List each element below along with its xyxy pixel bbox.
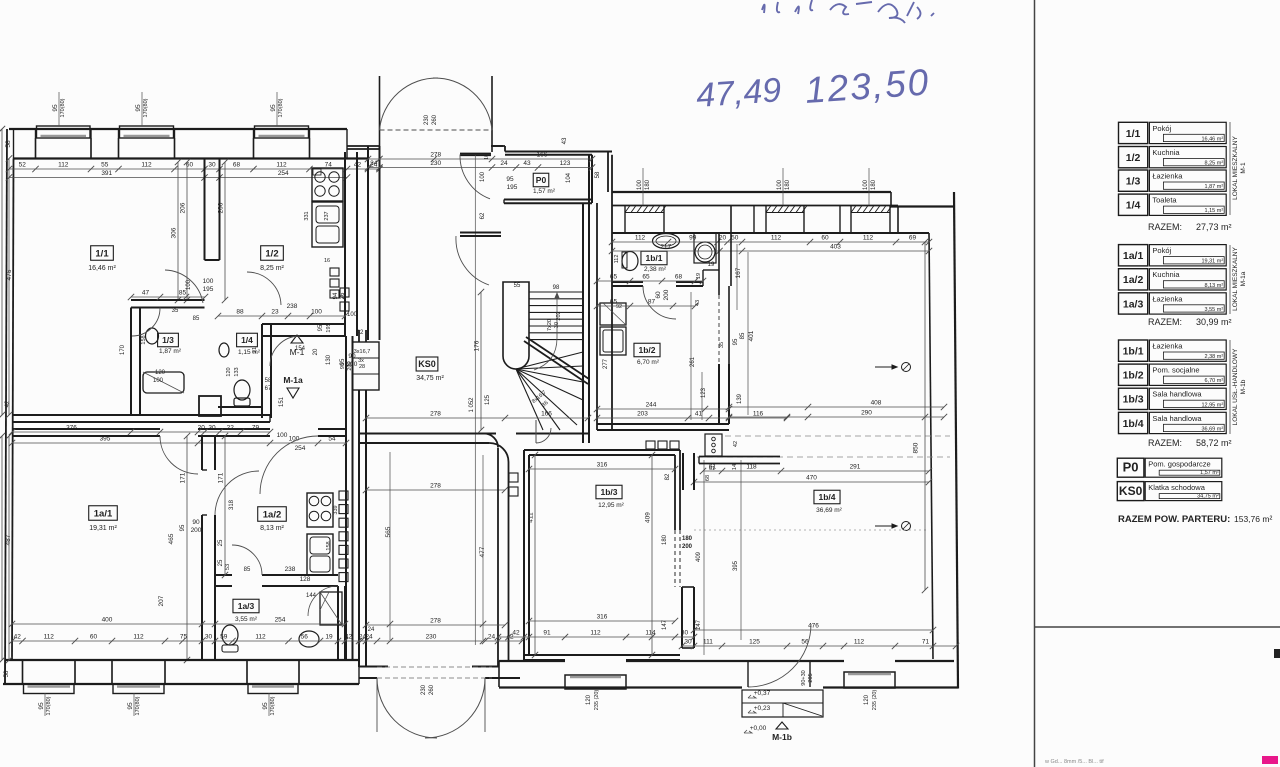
washbasin 1/3 (146, 328, 159, 344)
stairwell right wall (582, 203, 584, 443)
svg-text:195: 195 (203, 286, 214, 293)
pillar below opening 1b/3 (681, 587, 683, 648)
svg-text:43: 43 (562, 137, 568, 144)
svg-text:42: 42 (357, 330, 364, 336)
svg-text:395: 395 (733, 560, 739, 571)
svg-text:34,75 m²: 34,75 m² (1197, 493, 1219, 499)
stair flight boundary (582, 292, 584, 430)
svg-text:Kuchnia: Kuchnia (1152, 148, 1180, 157)
kitchen sink 1/2 (312, 202, 343, 247)
svg-text:25: 25 (218, 539, 224, 546)
svg-text:Pokój: Pokój (1152, 124, 1171, 133)
svg-text:401: 401 (748, 330, 755, 341)
svg-text:90: 90 (340, 363, 346, 369)
svg-text:170(80): 170(80) (278, 98, 284, 117)
svg-text:65: 65 (610, 274, 618, 281)
svg-text:30: 30 (684, 639, 692, 646)
svg-text:95: 95 (270, 104, 277, 112)
corridor lower door arc (456, 236, 489, 285)
door arc 1/3 (132, 308, 160, 337)
svg-text:6,70 m²: 6,70 m² (637, 359, 660, 366)
svg-text:206: 206 (180, 202, 187, 213)
svg-text:230: 230 (430, 160, 441, 167)
P0 dim chain (368, 158, 592, 160)
svg-text:24: 24 (359, 634, 367, 641)
top right corner step (890, 192, 892, 207)
svg-text:465: 465 (168, 533, 175, 544)
hall dim line 477 (482, 455, 484, 640)
svg-text:P0: P0 (1123, 460, 1139, 475)
svg-text:1b/2: 1b/2 (638, 345, 655, 355)
corridor door dim line (474, 155, 476, 645)
svg-text:24: 24 (368, 627, 375, 633)
svg-text:180: 180 (682, 536, 693, 542)
svg-text:278: 278 (430, 483, 441, 490)
door arc M-1b entrance (748, 624, 811, 687)
wall segment right of meter box (699, 456, 780, 458)
gas meter box below 1b/2 (705, 434, 722, 456)
window O3 top-left (255, 126, 309, 138)
dim chains 1b/3 (529, 468, 675, 470)
black mark right edge (1274, 649, 1280, 658)
svg-text:M-1b: M-1b (1240, 379, 1247, 394)
svg-text:23: 23 (271, 309, 279, 316)
svg-text:1b/4: 1b/4 (818, 492, 835, 502)
svg-text:144: 144 (306, 593, 317, 599)
svg-text:60: 60 (90, 634, 98, 641)
svg-text:170: 170 (120, 344, 126, 355)
three small squares below 1b/2 (646, 441, 655, 449)
svg-text:1/2: 1/2 (265, 248, 278, 259)
svg-text:254: 254 (295, 445, 306, 452)
svg-text:200: 200 (663, 289, 670, 300)
svg-text:30: 30 (205, 634, 213, 641)
svg-text:LOKAL MIESZKALNY: LOKAL MIESZKALNY (1232, 135, 1239, 199)
svg-text:290: 290 (861, 410, 872, 417)
radiator squares right wall 1/2 (330, 268, 339, 276)
svg-text:291: 291 (850, 464, 861, 471)
svg-text:331: 331 (304, 211, 310, 220)
washbasin oval 1b/1 (653, 234, 680, 249)
svg-text:68: 68 (705, 475, 711, 481)
dim chain 1b/2 bottom (597, 408, 729, 410)
svg-text:20: 20 (198, 425, 206, 432)
svg-text:112: 112 (614, 255, 620, 264)
svg-text:65: 65 (610, 299, 618, 306)
svg-text:230: 230 (424, 114, 430, 125)
svg-text:111: 111 (703, 639, 713, 646)
svg-text:Toaleta: Toaleta (1152, 196, 1177, 205)
room 1/1 label (91, 246, 114, 261)
page horizontal rule right (1035, 626, 1280, 628)
svg-text:RAZEM:: RAZEM: (1148, 222, 1182, 232)
svg-text:100: 100 (637, 179, 643, 190)
stairwell bottom wall (359, 433, 496, 435)
svg-text:158: 158 (141, 335, 147, 344)
bathroom 1/3 left wall (130, 308, 132, 416)
svg-text:8,13 m²: 8,13 m² (260, 525, 284, 532)
svg-text:170(80): 170(80) (270, 696, 276, 715)
svg-text:KS0: KS0 (1119, 484, 1143, 498)
svg-text:395: 395 (100, 436, 111, 443)
svg-text:100: 100 (347, 312, 358, 318)
svg-text:1b/4: 1b/4 (1123, 418, 1144, 430)
svg-text:19,31 m²: 19,31 m² (89, 525, 117, 532)
svg-text:114: 114 (645, 630, 656, 637)
dim chain bathroom zone (131, 296, 205, 298)
svg-text:112: 112 (255, 634, 266, 641)
svg-text:36,69 m²: 36,69 m² (816, 507, 842, 514)
svg-text:167: 167 (735, 267, 742, 278)
hatched window W2 right block (766, 206, 807, 213)
legend row 1b/3 (1119, 388, 1148, 409)
svg-text:100: 100 (277, 432, 288, 439)
svg-text:+0,23: +0,23 (754, 705, 771, 712)
nook wall 1b/1 right (718, 233, 720, 286)
entrance M-1b steps (742, 690, 823, 717)
svg-text:59: 59 (220, 634, 228, 641)
svg-text:112: 112 (141, 162, 152, 169)
svg-text:1 052: 1 052 (469, 397, 475, 413)
room 1b/4 label (814, 490, 840, 504)
svg-text:1/1: 1/1 (1126, 128, 1141, 140)
svg-text:36,69 m²: 36,69 m² (1201, 426, 1223, 432)
svg-text:200: 200 (682, 544, 693, 550)
svg-text:153,76 m²: 153,76 m² (1234, 514, 1272, 524)
svg-text:235 (20): 235 (20) (872, 690, 878, 711)
top facade dimension chain row1 (9, 168, 380, 170)
svg-text:42: 42 (5, 400, 11, 407)
legend row 1b/4 (1119, 412, 1148, 433)
svg-text:254: 254 (275, 617, 286, 624)
room 1b/1 label (641, 251, 667, 265)
magenta stamp (1262, 756, 1278, 764)
svg-text:125: 125 (749, 639, 760, 646)
wall right of 1a/3 (337, 586, 339, 660)
washer circle 1b/1 (695, 242, 715, 262)
door bay 1b/4 bottom (844, 672, 895, 688)
outer top wall of block M-1 (9, 128, 347, 130)
svg-text:M-1b: M-1b (772, 732, 792, 742)
svg-text:120: 120 (586, 694, 592, 705)
svg-text:400: 400 (102, 617, 113, 624)
svg-text:1b/3: 1b/3 (1123, 394, 1144, 406)
svg-text:1,15 m²: 1,15 m² (1205, 208, 1224, 214)
dashed opening right wall 1b/3 180/200 (674, 530, 676, 587)
svg-text:195: 195 (507, 184, 518, 191)
svg-text:20: 20 (313, 348, 319, 355)
bottom window labels (44, 693, 46, 716)
svg-text:79: 79 (252, 425, 260, 432)
svg-text:116: 116 (753, 411, 764, 418)
svg-text:90: 90 (192, 519, 200, 526)
svg-text:202: 202 (556, 311, 562, 320)
svg-text:195: 195 (326, 323, 332, 332)
room 1/4 label (237, 333, 258, 347)
svg-text:30: 30 (681, 630, 689, 637)
legend row 1b/2 (1119, 364, 1148, 385)
door arc 1a/3 shower zone (308, 586, 338, 616)
wall right of 1b/2 lower pillar (718, 364, 720, 424)
svg-text:128: 128 (300, 576, 311, 583)
svg-text:3,55 m²: 3,55 m² (235, 616, 258, 623)
porch threshold dashed (380, 129, 493, 131)
window labels 100/180 right block (642, 168, 644, 205)
svg-text:58: 58 (265, 378, 272, 384)
top facade dimension chain row2 (9, 177, 347, 179)
svg-text:28: 28 (359, 364, 365, 370)
svg-text:391: 391 (101, 170, 112, 177)
svg-text:476: 476 (6, 269, 13, 280)
svg-text:306: 306 (171, 227, 178, 238)
svg-text:176: 176 (474, 340, 481, 351)
svg-text:123: 123 (560, 160, 571, 167)
svg-text:85: 85 (193, 316, 200, 322)
M-1b label with triangle (776, 722, 788, 729)
svg-text:24: 24 (500, 160, 508, 167)
svg-text:217: 217 (660, 244, 671, 251)
svg-text:69: 69 (909, 235, 917, 242)
svg-text:56: 56 (301, 634, 309, 641)
svg-text:67: 67 (265, 386, 272, 392)
svg-text:151: 151 (279, 396, 285, 407)
svg-text:230: 230 (426, 634, 437, 641)
svg-text:316: 316 (597, 614, 608, 621)
svg-text:1a/2: 1a/2 (263, 509, 282, 520)
legend row 1/2 (1119, 147, 1148, 168)
svg-text:205: 205 (808, 673, 814, 682)
window U1 bottom (24, 684, 75, 694)
kitchen stove 1/2 (312, 168, 343, 201)
svg-text:30: 30 (208, 425, 216, 432)
svg-text:112: 112 (58, 162, 69, 169)
svg-text:244: 244 (646, 402, 657, 409)
right outer wall (954, 192, 958, 689)
svg-text:277: 277 (603, 358, 609, 369)
svg-text:112: 112 (133, 634, 144, 641)
svg-text:1,87 m²: 1,87 m² (1205, 184, 1224, 190)
svg-text:120: 120 (155, 370, 166, 376)
svg-text:112: 112 (276, 162, 287, 169)
svg-text:1/4: 1/4 (241, 335, 253, 345)
wall above bathroom 1/3 (131, 299, 205, 301)
pillar wall between 1a/1 and 1a/2 (201, 436, 203, 470)
svg-text:95: 95 (180, 524, 186, 531)
svg-text:16: 16 (324, 258, 330, 264)
svg-text:260: 260 (432, 114, 438, 125)
svg-text:1/2: 1/2 (1126, 152, 1141, 164)
door arc 1/2 (247, 272, 281, 305)
svg-text:180: 180 (662, 534, 668, 545)
svg-text:403: 403 (830, 244, 841, 251)
corridor M-1a dims (12, 431, 270, 433)
stair treads upper flight (529, 291, 583, 293)
wall segment right of 1/4 (262, 323, 345, 325)
hatched window W3 right block (851, 206, 892, 213)
1b/2 bottom wall (597, 423, 729, 425)
svg-text:1/1: 1/1 (95, 248, 109, 259)
svg-text:75: 75 (180, 634, 188, 641)
svg-text:170(80): 170(80) (46, 696, 52, 715)
door arc 1/1 to hall (165, 270, 203, 303)
door arc M-1a to 1a/1 (160, 436, 198, 474)
svg-text:47: 47 (142, 290, 150, 297)
svg-text:41: 41 (695, 411, 703, 418)
svg-text:100: 100 (203, 278, 214, 285)
svg-text:Klatka schodowa: Klatka schodowa (1148, 483, 1206, 492)
svg-text:1,57 m²: 1,57 m² (533, 188, 556, 195)
svg-text:58,72 m²: 58,72 m² (1196, 438, 1232, 448)
svg-text:100: 100 (153, 378, 164, 384)
party wall lower pair (12, 428, 160, 430)
legend row 1/3 (1119, 170, 1148, 191)
svg-text:1a/1: 1a/1 (94, 508, 113, 519)
svg-text:95: 95 (52, 104, 59, 112)
toilet bowl 1/4 (234, 380, 250, 400)
svg-text:6,70 m²: 6,70 m² (1205, 378, 1224, 384)
svg-text:w Gd... 8mm /5... Bl... tif: w Gd... 8mm /5... Bl... tif (1044, 759, 1104, 765)
door arc 1b/1 (643, 286, 676, 319)
svg-text:LOKAL USŁ.-HANDLOWY: LOKAL USŁ.-HANDLOWY (1232, 348, 1239, 425)
legend row 1/4 (1119, 194, 1148, 215)
shaft wall right of room 1/2 (344, 152, 346, 336)
svg-text:12,95 m²: 12,95 m² (1201, 402, 1223, 408)
svg-text:27,73 m²: 27,73 m² (1196, 222, 1232, 232)
svg-text:RAZEM:: RAZEM: (1148, 317, 1182, 327)
svg-text:54: 54 (328, 436, 336, 443)
svg-text:230: 230 (421, 684, 427, 695)
svg-text:58: 58 (4, 670, 10, 677)
svg-text:2,38 m²: 2,38 m² (1205, 354, 1224, 360)
svg-text:139: 139 (737, 393, 743, 404)
wall right of 1b/2 upper (718, 295, 720, 364)
exit threshold dashed (377, 666, 492, 668)
svg-text:254: 254 (278, 170, 289, 177)
svg-text:35: 35 (172, 308, 179, 314)
window U3 bottom (248, 684, 298, 694)
svg-text:477: 477 (479, 546, 486, 557)
svg-text:91: 91 (543, 630, 551, 637)
top wall right block outer line (612, 191, 891, 193)
porch stub walls (347, 145, 380, 147)
svg-text:58: 58 (595, 171, 601, 178)
svg-text:30,99 m²: 30,99 m² (1196, 317, 1232, 327)
svg-text:+0,37: +0,37 (754, 690, 771, 697)
svg-text:1a/2: 1a/2 (1123, 274, 1144, 286)
kitchen unit 1b/2 (600, 303, 626, 325)
svg-text:104: 104 (566, 172, 572, 183)
svg-text:112: 112 (590, 630, 601, 637)
svg-text:3x16,7: 3x16,7 (354, 349, 371, 355)
svg-text:8,13 m²: 8,13 m² (1205, 283, 1224, 289)
svg-text:55: 55 (514, 283, 521, 289)
room 1a/2 label (258, 507, 287, 522)
bottom facade dim chain inner (12, 640, 366, 642)
svg-text:19: 19 (325, 634, 333, 641)
svg-text:M-1a: M-1a (283, 375, 303, 385)
svg-text:98: 98 (553, 285, 560, 291)
svg-text:34,75 m²: 34,75 m² (416, 375, 444, 382)
wall between 1a/2 and 1a/3 (215, 574, 232, 576)
svg-text:200: 200 (191, 527, 202, 534)
svg-text:409: 409 (696, 551, 702, 562)
svg-text:180: 180 (871, 179, 877, 190)
svg-text:100: 100 (480, 171, 486, 182)
svg-text:278: 278 (430, 618, 441, 625)
svg-text:62: 62 (480, 212, 486, 219)
svg-text:171: 171 (218, 472, 225, 483)
svg-text:KS0: KS0 (418, 359, 436, 369)
svg-text:1/3: 1/3 (162, 335, 174, 345)
svg-text:207: 207 (158, 595, 165, 606)
svg-text:Kuchnia: Kuchnia (1152, 270, 1180, 279)
svg-text:237: 237 (324, 211, 330, 220)
pillar between 1/1 and 1/2 (204, 159, 206, 261)
svg-text:87: 87 (648, 299, 656, 306)
svg-text:339: 339 (333, 505, 339, 514)
stairwell left wall lower (345, 336, 347, 660)
svg-text:112: 112 (771, 235, 782, 242)
hall dim line 565 (389, 452, 391, 640)
party wall between M-1 and M-1a upper pair (12, 414, 270, 416)
svg-text:Sala handlowa: Sala handlowa (1152, 390, 1202, 399)
svg-text:200: 200 (347, 361, 353, 370)
corridor lower wall stub (460, 232, 501, 234)
svg-text:95: 95 (262, 702, 269, 710)
bottom-left outer walls (5, 659, 359, 661)
svg-text:68: 68 (675, 274, 683, 281)
svg-text:170(80): 170(80) (135, 696, 141, 715)
svg-text:16,46 m²: 16,46 m² (88, 265, 116, 272)
svg-text:43: 43 (523, 160, 531, 167)
svg-text:24: 24 (370, 160, 378, 167)
room 1/2 label (261, 246, 284, 261)
legend row 1a/1 (1119, 245, 1148, 266)
svg-text:53: 53 (225, 564, 231, 570)
stair winder treads (516, 352, 583, 369)
shaft square in party wall (199, 396, 221, 416)
svg-text:166: 166 (537, 152, 548, 159)
stair newel (503, 282, 529, 369)
svg-text:58: 58 (5, 140, 12, 148)
dim chain 1b/1 top (612, 241, 929, 243)
svg-text:20: 20 (719, 235, 727, 242)
svg-text:Sala handlowa: Sala handlowa (1152, 414, 1202, 423)
svg-text:3,55 m²: 3,55 m² (1205, 307, 1224, 313)
svg-text:133: 133 (234, 367, 240, 376)
door arc M-1a corridor (260, 436, 318, 494)
svg-text:2,38 m²: 2,38 m² (644, 266, 667, 273)
top wall piers (624, 206, 626, 234)
svg-text:261: 261 (690, 356, 696, 367)
svg-text:42: 42 (512, 630, 520, 637)
toilet 1/4 room walls (261, 324, 263, 418)
svg-text:318: 318 (229, 499, 235, 510)
svg-text:180: 180 (645, 179, 651, 190)
svg-text:M-1: M-1 (1240, 162, 1247, 174)
door arc at stair bottom (536, 428, 551, 443)
svg-text:88: 88 (236, 309, 244, 316)
svg-text:170(80): 170(80) (143, 98, 149, 117)
svg-text:470: 470 (806, 475, 817, 482)
svg-text:118: 118 (746, 464, 757, 471)
svg-text:P0: P0 (536, 175, 547, 185)
north arrow symbol lower (875, 525, 897, 527)
svg-text:Pom. gospodarcze: Pom. gospodarcze (1148, 460, 1211, 469)
window U2 bottom (113, 684, 164, 694)
room 1b/3 label (596, 485, 622, 499)
svg-text:61: 61 (709, 466, 715, 472)
